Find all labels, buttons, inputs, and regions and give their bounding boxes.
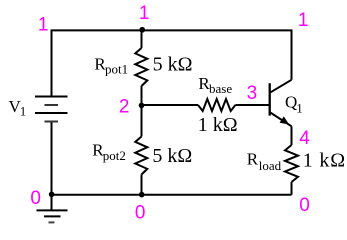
wire node2 to Rbase xyxy=(142,104,199,106)
svg-text:1 kΩ: 1 kΩ xyxy=(303,149,346,171)
battery V1 short plate bottom xyxy=(45,121,59,123)
svg-text:3: 3 xyxy=(247,83,258,104)
wire Rbase to base xyxy=(235,104,269,106)
resistor Rload xyxy=(285,145,298,182)
svg-text:1: 1 xyxy=(139,3,150,24)
svg-text:R: R xyxy=(247,149,259,168)
wire Rload to bottom rail xyxy=(291,182,293,195)
wire middle branch top xyxy=(141,29,143,48)
svg-text:0: 0 xyxy=(299,195,310,216)
svg-text:2: 2 xyxy=(119,97,130,118)
svg-text:load: load xyxy=(259,158,282,173)
svg-text:4: 4 xyxy=(299,128,310,149)
svg-text:pot2: pot2 xyxy=(103,148,126,163)
transistor Q1 collector xyxy=(271,80,292,93)
svg-text:base: base xyxy=(209,81,232,96)
svg-text:1 kΩ: 1 kΩ xyxy=(198,114,238,136)
battery V1 long plate top xyxy=(35,96,68,98)
junction node 2 xyxy=(139,103,145,109)
svg-text:1: 1 xyxy=(298,10,309,31)
transistor Q1 base bar xyxy=(269,83,271,115)
junction bottom of Rpot2 xyxy=(139,192,145,198)
battery V1 short plate upper xyxy=(45,104,59,106)
resistor Rpot1 xyxy=(135,48,147,86)
junction top of Rpot1 xyxy=(139,27,145,33)
svg-text:1: 1 xyxy=(296,100,303,115)
resistor Rpot2 xyxy=(135,137,147,175)
svg-text:5 kΩ: 5 kΩ xyxy=(153,53,193,75)
wire middle branch bottom xyxy=(141,175,143,195)
wire top-left/top rail/right drop xyxy=(52,30,292,96)
ground bar 2 xyxy=(44,215,61,217)
wire bottom rail xyxy=(52,194,292,196)
battery V1 long plate lower xyxy=(35,112,68,114)
ground bar 1 xyxy=(37,209,68,211)
wire middle branch mid xyxy=(141,86,143,137)
transistor Q1 emitter xyxy=(271,113,292,127)
svg-text:pot1: pot1 xyxy=(105,62,128,77)
ground bar 3 xyxy=(49,221,55,223)
svg-text:1: 1 xyxy=(38,14,49,35)
transistor Q1 emitter arrowhead xyxy=(280,116,290,124)
ground stub xyxy=(51,195,53,211)
svg-text:0: 0 xyxy=(30,188,41,209)
wire left bottom xyxy=(51,122,53,195)
junction bottom left ground xyxy=(49,192,55,198)
resistor Rbase xyxy=(198,99,235,111)
wire emitter to Rload xyxy=(291,126,293,145)
svg-text:1: 1 xyxy=(20,103,27,118)
svg-text:5 kΩ: 5 kΩ xyxy=(152,145,192,167)
svg-text:0: 0 xyxy=(135,203,146,224)
